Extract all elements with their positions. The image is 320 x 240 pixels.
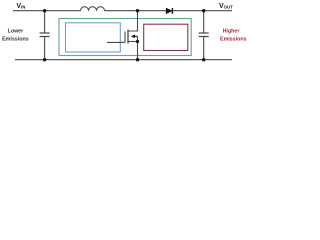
capacitor Cin plates bbox=[40, 33, 50, 37]
svg-text:VIN: VIN bbox=[16, 3, 25, 10]
inductor L1 bbox=[81, 7, 105, 11]
transistor Q1 gate wire bbox=[107, 41, 125, 43]
svg-text:VOUT: VOUT bbox=[219, 3, 233, 10]
transistor Q1 body stub with arrow bbox=[134, 35, 138, 37]
svg-text:Higher: Higher bbox=[223, 29, 240, 35]
wire top right bbox=[173, 10, 232, 12]
capacitor Cout leads bbox=[203, 11, 205, 33]
teal emission loop box bbox=[59, 19, 191, 56]
diode D1 bbox=[166, 8, 172, 14]
node input top bbox=[43, 9, 46, 12]
wire MOSFET source to bottom rail bbox=[137, 36, 139, 59]
wire top middle (switch node) bbox=[105, 10, 167, 12]
transistor Q1 source stub bbox=[128, 41, 138, 43]
dark red hot loop box bbox=[144, 24, 188, 50]
node output top bbox=[202, 9, 205, 12]
wire top left bbox=[13, 10, 81, 12]
transistor Q1 gate bar bbox=[124, 32, 126, 43]
transistor Q1 channel bar bbox=[127, 30, 129, 44]
svg-text:Lower: Lower bbox=[8, 29, 24, 35]
wire bottom rail bbox=[15, 59, 232, 61]
node output bottom bbox=[202, 58, 205, 61]
node input bottom bbox=[43, 58, 46, 61]
capacitor Cin leads bbox=[44, 11, 46, 33]
node switch bottom bbox=[136, 58, 139, 61]
wire switch node to MOSFET drain bbox=[128, 11, 138, 31]
blue input loop box bbox=[66, 23, 121, 52]
svg-text:Emissions: Emissions bbox=[220, 37, 247, 43]
capacitor Cout plates bbox=[199, 33, 209, 37]
node source/body junction bbox=[136, 40, 139, 43]
svg-text:Emissions: Emissions bbox=[2, 37, 29, 43]
node switch top bbox=[136, 9, 139, 12]
